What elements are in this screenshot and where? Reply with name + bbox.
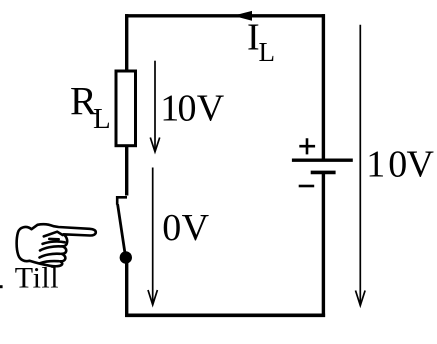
manicule finger fold A xyxy=(40,246,62,250)
edge mark artifact xyxy=(0,285,3,288)
wire right upper xyxy=(322,14,325,159)
wire bottom xyxy=(125,313,325,317)
voltage arrow 10V across R_L xyxy=(154,61,156,152)
arrowhead of 0V arrow xyxy=(148,290,157,305)
wire right lower xyxy=(322,172,325,317)
battery plus sign xyxy=(299,138,315,154)
manicule thumb inner fold xyxy=(49,238,58,241)
source voltage arrow 10V full loop xyxy=(359,25,361,305)
manicule finger fold C xyxy=(40,261,59,263)
manicule finger fold B xyxy=(40,254,61,258)
svg-text:L: L xyxy=(93,103,111,135)
wire top xyxy=(125,14,325,17)
voltage arrow 0V across switch xyxy=(152,168,154,305)
arrowhead current direction left xyxy=(233,11,252,21)
manicule hand silhouette with pointing finger xyxy=(17,224,96,266)
wire below switch node xyxy=(125,257,128,317)
svg-text:Till: Till xyxy=(15,262,59,295)
svg-text:10V: 10V xyxy=(160,87,225,129)
battery B1 positive plate xyxy=(292,158,353,161)
wire below resistor xyxy=(125,145,128,196)
battery B1 negative plate xyxy=(311,171,336,175)
node junction dot xyxy=(120,251,132,263)
svg-text:10V: 10V xyxy=(366,144,434,186)
resistor R_L xyxy=(116,71,136,146)
pointing hand manicule xyxy=(17,224,96,266)
arrowhead of source arrow xyxy=(356,291,366,306)
svg-text:0V: 0V xyxy=(162,207,209,249)
manicule thumb lower edge xyxy=(43,242,65,244)
arrowhead of 10V arrow xyxy=(150,138,159,152)
svg-text:L: L xyxy=(259,37,276,67)
battery minus sign xyxy=(299,185,315,188)
wire left upper xyxy=(125,14,128,71)
switch S1 blade xyxy=(118,204,126,256)
manicule thumb top edge xyxy=(44,232,63,237)
switch S1 fixed contact hook xyxy=(117,197,127,204)
